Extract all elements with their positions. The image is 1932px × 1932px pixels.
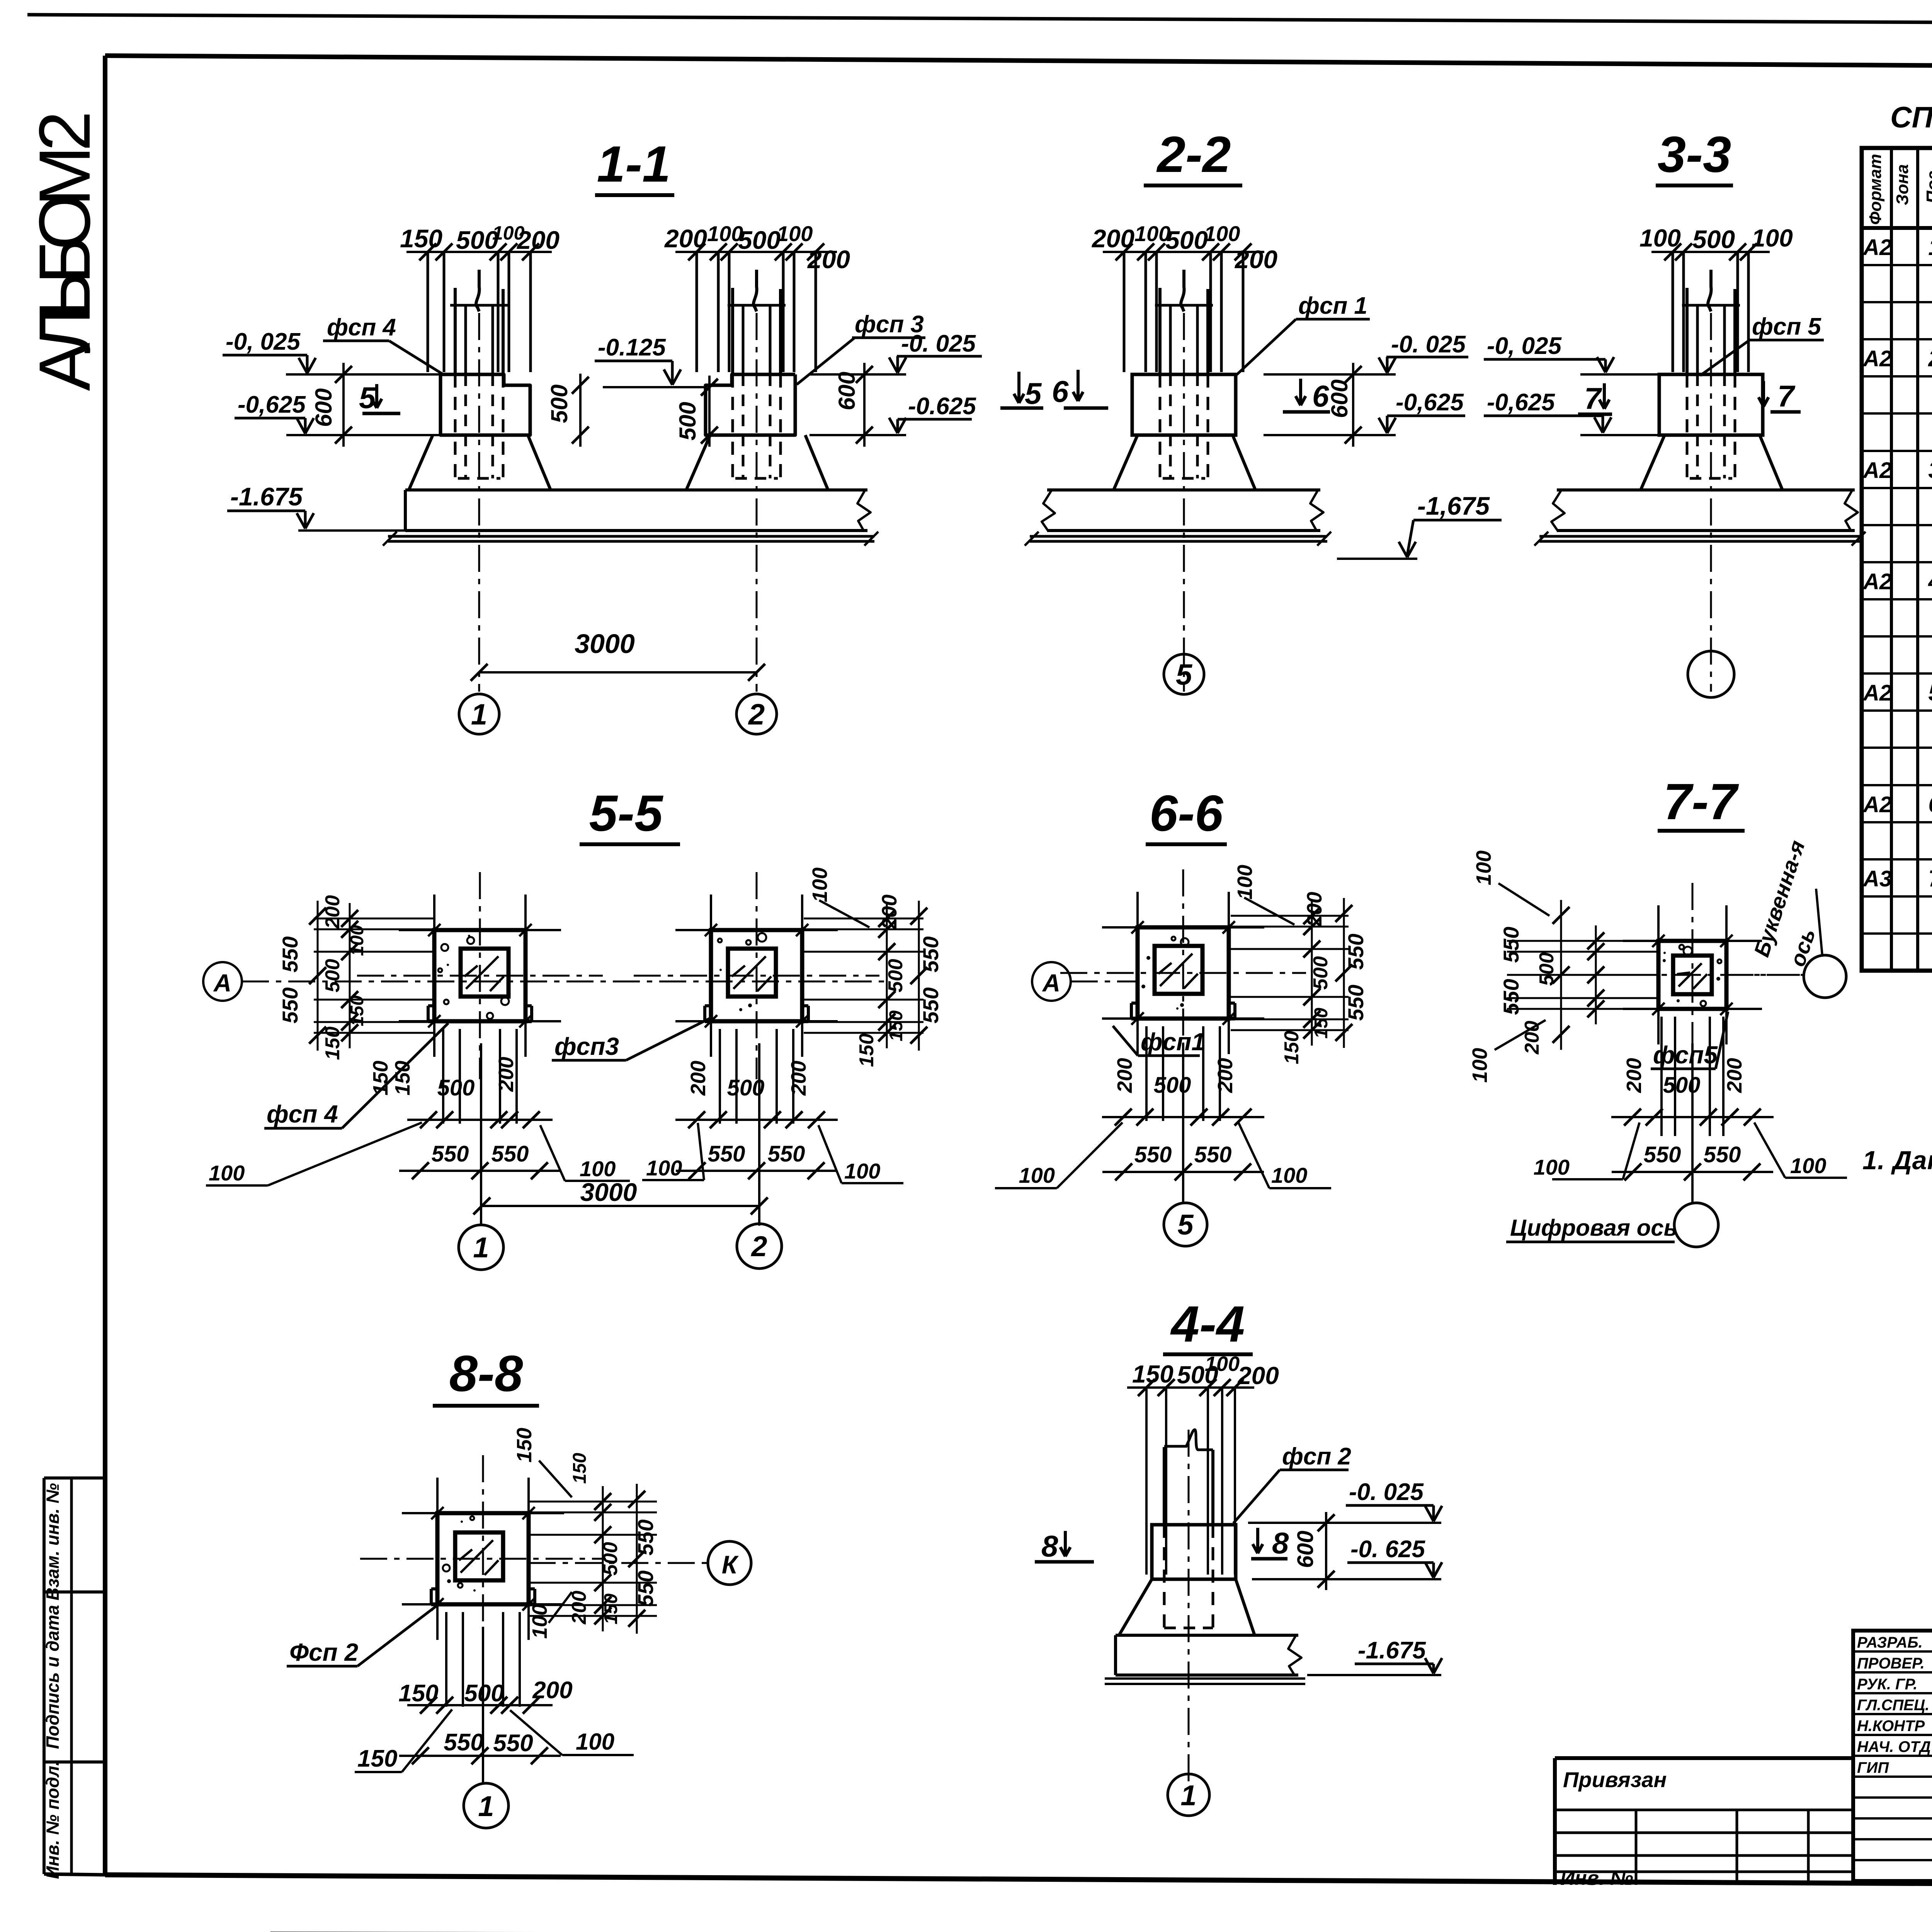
svg-text:200: 200 bbox=[1622, 1058, 1646, 1093]
svg-text:К: К bbox=[722, 1550, 739, 1579]
svg-text:Инв. № подл.: Инв. № подл. bbox=[43, 1761, 63, 1879]
svg-text:1-1: 1-1 bbox=[597, 136, 671, 192]
svg-text:-0. 025: -0. 025 bbox=[901, 330, 976, 357]
svg-text:7-7: 7-7 bbox=[1663, 773, 1739, 830]
svg-text:А3: А3 bbox=[1862, 866, 1892, 891]
svg-text:ГЛ.СПЕЦ.: ГЛ.СПЕЦ. bbox=[1857, 1697, 1929, 1714]
svg-text:7: 7 bbox=[1777, 379, 1796, 413]
svg-text:5: 5 bbox=[1928, 680, 1932, 706]
svg-text:550: 550 bbox=[493, 1730, 533, 1757]
svg-text:500: 500 bbox=[675, 402, 701, 440]
svg-text:200: 200 bbox=[1234, 245, 1277, 274]
svg-text:150: 150 bbox=[391, 1061, 414, 1095]
svg-text:500: 500 bbox=[546, 384, 572, 423]
svg-text:200: 200 bbox=[687, 1061, 710, 1096]
svg-text:550: 550 bbox=[708, 1141, 745, 1167]
svg-text:100: 100 bbox=[808, 867, 832, 902]
svg-text:550: 550 bbox=[918, 936, 943, 972]
svg-text:Взам. инв. №: Взам. инв. № bbox=[43, 1483, 63, 1600]
svg-text:150: 150 bbox=[357, 1745, 397, 1772]
svg-text:6: 6 bbox=[1052, 374, 1069, 408]
svg-text:фсп 4: фсп 4 bbox=[267, 1100, 338, 1128]
svg-text:Поз.: Поз. bbox=[1923, 166, 1932, 203]
svg-text:100: 100 bbox=[1468, 1048, 1492, 1083]
svg-text:-0. 025: -0. 025 bbox=[1349, 1479, 1424, 1505]
svg-text:100: 100 bbox=[1472, 850, 1495, 885]
svg-text:150: 150 bbox=[1132, 1360, 1173, 1388]
svg-text:АЛЬБОМ 2: АЛЬБОМ 2 bbox=[24, 111, 105, 391]
svg-text:550: 550 bbox=[633, 1570, 658, 1606]
svg-text:550: 550 bbox=[1194, 1142, 1232, 1167]
svg-text:150: 150 bbox=[398, 1680, 438, 1707]
svg-text:550: 550 bbox=[1344, 985, 1368, 1020]
svg-text:500: 500 bbox=[884, 959, 907, 993]
svg-text:-1.675: -1.675 bbox=[230, 482, 303, 511]
svg-text:550: 550 bbox=[432, 1141, 469, 1167]
svg-text:2-2: 2-2 bbox=[1156, 126, 1231, 183]
svg-text:Фсп 2: Фсп 2 bbox=[289, 1638, 358, 1666]
svg-text:4-4: 4-4 bbox=[1170, 1296, 1245, 1352]
svg-text:500: 500 bbox=[1165, 226, 1208, 254]
svg-text:100: 100 bbox=[580, 1156, 616, 1181]
svg-text:200: 200 bbox=[1113, 1058, 1136, 1093]
svg-text:РУК. ГР.: РУК. ГР. bbox=[1857, 1676, 1917, 1693]
svg-text:200: 200 bbox=[1091, 224, 1134, 253]
svg-text:100: 100 bbox=[1204, 221, 1240, 246]
svg-text:Зона: Зона bbox=[1893, 164, 1912, 205]
svg-text:600: 600 bbox=[1327, 379, 1352, 418]
svg-text:500: 500 bbox=[1154, 1073, 1191, 1098]
svg-text:200: 200 bbox=[1237, 1362, 1279, 1389]
svg-text:100: 100 bbox=[777, 221, 813, 246]
svg-text:8: 8 bbox=[1272, 1526, 1289, 1560]
svg-text:Подпись и дата: Подпись и дата bbox=[43, 1605, 63, 1749]
svg-text:А2: А2 bbox=[1862, 235, 1892, 260]
svg-text:СПЕЦИФИКАЦИЯ НАБЕТОНОК ФСП1,: СПЕЦИФИКАЦИЯ НАБЕТОНОК ФСП1,.....ФСП5 bbox=[1890, 101, 1932, 134]
svg-text:100: 100 bbox=[1019, 1163, 1055, 1187]
svg-text:550: 550 bbox=[918, 987, 943, 1023]
svg-text:150: 150 bbox=[1281, 1031, 1303, 1065]
svg-text:4: 4 bbox=[1928, 568, 1932, 594]
svg-text:500: 500 bbox=[1692, 225, 1735, 253]
svg-text:200: 200 bbox=[664, 224, 707, 253]
svg-text:6: 6 bbox=[1928, 791, 1932, 817]
svg-text:500: 500 bbox=[437, 1075, 475, 1100]
svg-text:150: 150 bbox=[513, 1428, 536, 1463]
svg-text:100: 100 bbox=[528, 1604, 551, 1639]
svg-text:А: А bbox=[213, 969, 231, 997]
svg-text:3000: 3000 bbox=[575, 629, 635, 659]
svg-text:А2: А2 bbox=[1862, 569, 1892, 594]
svg-text:3: 3 bbox=[1928, 457, 1932, 483]
svg-text:200: 200 bbox=[1521, 1021, 1543, 1055]
svg-text:НАЧ. ОТД: НАЧ. ОТД bbox=[1857, 1738, 1931, 1755]
svg-text:-0. 025: -0. 025 bbox=[1391, 331, 1466, 358]
svg-text:550: 550 bbox=[1644, 1142, 1681, 1167]
svg-text:2: 2 bbox=[750, 1230, 767, 1262]
svg-text:100: 100 bbox=[576, 1729, 614, 1755]
svg-text:-0. 625: -0. 625 bbox=[1350, 1536, 1426, 1563]
svg-text:100: 100 bbox=[1534, 1155, 1570, 1179]
svg-text:А2: А2 bbox=[1862, 792, 1892, 817]
svg-text:550: 550 bbox=[492, 1141, 529, 1167]
svg-text:500: 500 bbox=[1536, 952, 1558, 986]
svg-text:100: 100 bbox=[1271, 1163, 1307, 1187]
svg-text:8-8: 8-8 bbox=[449, 1345, 523, 1402]
svg-text:150: 150 bbox=[601, 1594, 621, 1624]
svg-text:500: 500 bbox=[1663, 1073, 1701, 1098]
svg-text:РАЗРАБ.: РАЗРАБ. bbox=[1857, 1634, 1923, 1651]
svg-text:100: 100 bbox=[1233, 865, 1257, 900]
svg-text:550: 550 bbox=[768, 1141, 805, 1167]
svg-text:1: 1 bbox=[1928, 234, 1932, 260]
svg-text:5: 5 bbox=[359, 381, 376, 415]
svg-text:1: 1 bbox=[478, 1790, 494, 1822]
svg-text:-1,675: -1,675 bbox=[1417, 492, 1490, 520]
svg-text:7: 7 bbox=[1584, 381, 1602, 415]
svg-text:-0.625: -0.625 bbox=[908, 393, 976, 420]
svg-text:1. Данный чертеж читать сов: 1. Данный чертеж читать совместно с лист… bbox=[1862, 1146, 1932, 1175]
svg-text:-0, 025: -0, 025 bbox=[1487, 333, 1562, 359]
svg-text:500: 500 bbox=[1310, 956, 1332, 990]
svg-text:5-5: 5-5 bbox=[589, 785, 663, 842]
svg-text:500: 500 bbox=[738, 226, 781, 254]
svg-text:100: 100 bbox=[1639, 224, 1681, 252]
svg-text:150: 150 bbox=[570, 1453, 590, 1484]
svg-text:фсп 2: фсп 2 bbox=[1282, 1443, 1351, 1470]
svg-text:600: 600 bbox=[311, 388, 337, 427]
svg-text:фсп 4: фсп 4 bbox=[327, 314, 396, 341]
svg-text:550: 550 bbox=[1344, 934, 1368, 969]
svg-text:Формат: Формат bbox=[1866, 154, 1885, 225]
svg-text:Привязан: Привязан bbox=[1563, 1767, 1667, 1792]
svg-text:фсп3: фсп3 bbox=[554, 1032, 619, 1060]
svg-text:200: 200 bbox=[321, 895, 344, 929]
svg-text:А2: А2 bbox=[1862, 346, 1892, 371]
svg-text:2: 2 bbox=[748, 698, 765, 731]
svg-text:550: 550 bbox=[1499, 927, 1523, 963]
svg-text:5: 5 bbox=[1176, 658, 1193, 691]
svg-text:Инв. №: Инв. № bbox=[1560, 1867, 1633, 1889]
svg-text:фсп1: фсп1 bbox=[1141, 1028, 1205, 1056]
svg-text:200: 200 bbox=[568, 1591, 590, 1625]
svg-text:200: 200 bbox=[1723, 1058, 1746, 1093]
svg-text:Цифровая ось: Цифровая ось bbox=[1510, 1215, 1677, 1241]
svg-text:150: 150 bbox=[321, 1027, 344, 1060]
svg-text:100: 100 bbox=[646, 1156, 682, 1180]
svg-text:2: 2 bbox=[1928, 345, 1932, 371]
svg-text:фсп5: фсп5 bbox=[1653, 1041, 1718, 1069]
svg-text:200: 200 bbox=[1303, 892, 1326, 927]
svg-text:-0,625: -0,625 bbox=[238, 391, 306, 418]
svg-text:500: 500 bbox=[599, 1542, 622, 1576]
svg-text:А2: А2 bbox=[1862, 458, 1892, 483]
svg-text:550: 550 bbox=[1499, 979, 1523, 1015]
svg-text:550: 550 bbox=[1134, 1142, 1172, 1167]
svg-text:А: А bbox=[1042, 969, 1060, 997]
svg-text:-0.125: -0.125 bbox=[598, 334, 666, 361]
svg-text:100: 100 bbox=[1205, 1352, 1240, 1376]
svg-text:550: 550 bbox=[278, 936, 302, 972]
svg-text:5: 5 bbox=[1025, 376, 1042, 410]
svg-text:100: 100 bbox=[209, 1161, 245, 1185]
svg-text:6-6: 6-6 bbox=[1150, 785, 1224, 842]
svg-text:550: 550 bbox=[1704, 1142, 1741, 1167]
svg-text:150: 150 bbox=[855, 1034, 878, 1067]
svg-text:фсп 1: фсп 1 bbox=[1298, 293, 1367, 319]
svg-text:3000: 3000 bbox=[580, 1178, 637, 1206]
svg-text:-0, 025: -0, 025 bbox=[226, 328, 301, 355]
svg-text:5: 5 bbox=[1177, 1209, 1194, 1241]
svg-text:100: 100 bbox=[347, 925, 367, 956]
svg-text:150: 150 bbox=[886, 1010, 906, 1041]
svg-text:1: 1 bbox=[473, 1231, 489, 1264]
svg-text:200: 200 bbox=[787, 1061, 810, 1096]
svg-text:1: 1 bbox=[471, 698, 487, 731]
svg-text:150: 150 bbox=[369, 1061, 392, 1095]
svg-text:150: 150 bbox=[1311, 1008, 1332, 1039]
svg-text:Н.КОНТР: Н.КОНТР bbox=[1857, 1718, 1925, 1735]
svg-text:150: 150 bbox=[347, 995, 367, 1026]
svg-text:-0,625: -0,625 bbox=[1396, 389, 1464, 416]
svg-text:фсп 5: фсп 5 bbox=[1752, 313, 1821, 340]
svg-text:8: 8 bbox=[1041, 1529, 1058, 1563]
svg-text:ГИП: ГИП bbox=[1857, 1759, 1889, 1776]
svg-text:550: 550 bbox=[278, 987, 302, 1023]
svg-text:100: 100 bbox=[1790, 1153, 1826, 1178]
svg-text:ПРОВЕР.: ПРОВЕР. bbox=[1857, 1655, 1925, 1672]
svg-text:150: 150 bbox=[400, 224, 442, 253]
svg-text:А2: А2 bbox=[1862, 680, 1892, 706]
svg-text:1: 1 bbox=[1180, 1779, 1196, 1811]
svg-text:3-3: 3-3 bbox=[1658, 126, 1731, 183]
svg-text:200: 200 bbox=[807, 245, 850, 274]
svg-text:7: 7 bbox=[1928, 866, 1932, 891]
svg-text:200: 200 bbox=[516, 226, 560, 254]
svg-text:100: 100 bbox=[844, 1159, 880, 1183]
svg-text:200: 200 bbox=[878, 895, 901, 930]
svg-text:100: 100 bbox=[1752, 224, 1793, 252]
svg-text:-0,625: -0,625 bbox=[1487, 389, 1555, 416]
svg-text:200: 200 bbox=[532, 1677, 572, 1704]
svg-text:200: 200 bbox=[1214, 1058, 1237, 1093]
svg-text:200: 200 bbox=[495, 1057, 518, 1092]
svg-text:-1.675: -1.675 bbox=[1358, 1637, 1426, 1664]
svg-text:600: 600 bbox=[1293, 1531, 1318, 1568]
svg-text:550: 550 bbox=[633, 1519, 658, 1555]
svg-text:500: 500 bbox=[321, 959, 344, 993]
svg-text:600: 600 bbox=[834, 372, 860, 410]
svg-text:550: 550 bbox=[444, 1729, 483, 1756]
